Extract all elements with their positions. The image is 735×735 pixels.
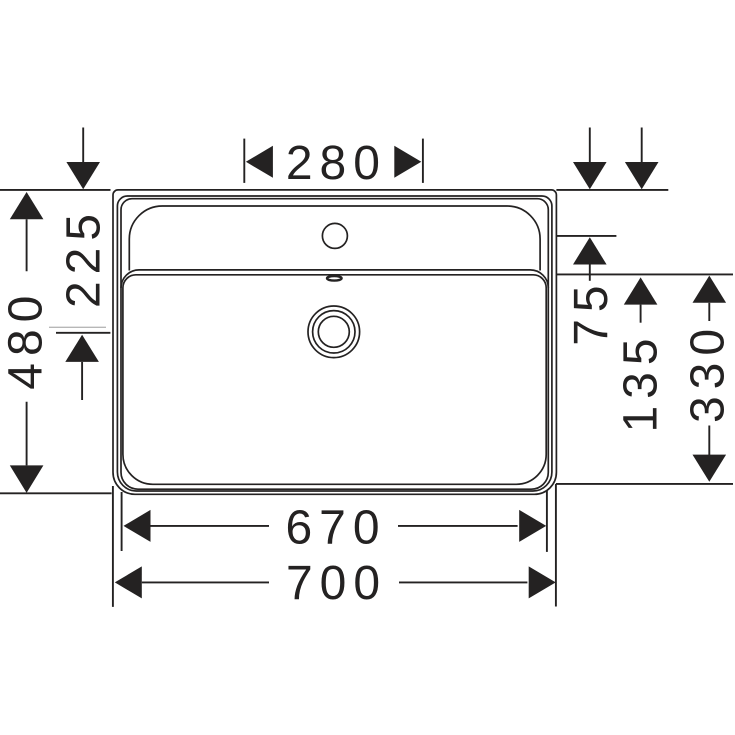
bowl outer deck line xyxy=(121,270,548,288)
svg-text:280: 280 xyxy=(286,137,387,190)
arrow up 480 top xyxy=(10,192,44,219)
basin rim line R3 xyxy=(121,199,548,490)
shelf inner edge xyxy=(129,206,540,271)
drain centre line (faint) xyxy=(49,326,106,328)
dim 225 top stem xyxy=(82,128,84,164)
arrow left 670 xyxy=(124,510,151,542)
arrow down 225 top xyxy=(66,162,100,189)
arrow up 75 xyxy=(573,237,607,264)
arrow right 280 xyxy=(394,146,421,178)
svg-text:700: 700 xyxy=(286,557,387,610)
dim 480 stems xyxy=(26,219,28,465)
basin rim line R2 xyxy=(117,196,552,491)
arrow right 670 xyxy=(519,510,546,542)
dim 700 line xyxy=(142,581,528,583)
top reference line left xyxy=(0,189,111,191)
svg-text:480: 480 xyxy=(0,289,53,390)
drain outer circle xyxy=(308,306,360,358)
drain middle circle xyxy=(313,311,355,353)
bowl inner contour xyxy=(123,275,546,485)
bottom left reference line xyxy=(0,492,112,494)
arrow up 225 bottom xyxy=(65,335,99,362)
svg-text:135: 135 xyxy=(614,331,667,432)
dim 75 stem xyxy=(589,265,591,281)
dim 225 bottom stem xyxy=(81,362,83,400)
dim 280 right tick xyxy=(422,139,424,183)
svg-text:225: 225 xyxy=(57,207,110,308)
basin outer contour R1 xyxy=(113,190,556,494)
dim 330 stems xyxy=(708,303,710,455)
dim 670 left tick xyxy=(121,492,123,551)
arrow up 330 top xyxy=(693,276,727,303)
dim 280 left tick xyxy=(243,139,245,183)
faucet centre tick xyxy=(556,235,617,237)
dim 670 right tick xyxy=(546,490,548,552)
drain centre tick xyxy=(56,332,110,334)
dim 700 left extension xyxy=(112,486,114,607)
svg-text:670: 670 xyxy=(285,501,386,554)
bottom right extension line xyxy=(556,483,733,485)
svg-text:75: 75 xyxy=(565,278,618,345)
arrow down 480 bottom xyxy=(10,465,44,493)
arrow up 135 xyxy=(624,277,658,304)
arrow down 135 top xyxy=(625,162,659,189)
svg-text:330: 330 xyxy=(681,322,734,423)
arrow left 700 xyxy=(115,566,142,598)
arrow down 330 bottom xyxy=(693,455,727,482)
faucet hole xyxy=(322,223,347,248)
overflow slot xyxy=(327,276,342,281)
dim 135 stem xyxy=(640,305,642,323)
arrow right 700 xyxy=(529,566,556,598)
dim 670 line xyxy=(151,525,518,527)
arrow down 75 top xyxy=(573,162,607,189)
top reference line right xyxy=(556,189,668,191)
arrow left 280 xyxy=(246,146,273,178)
deck level extension line xyxy=(556,273,733,275)
dim 700 right extension xyxy=(555,484,557,607)
drain inner circle xyxy=(318,316,349,347)
dim 75/135 top stems xyxy=(590,128,642,164)
